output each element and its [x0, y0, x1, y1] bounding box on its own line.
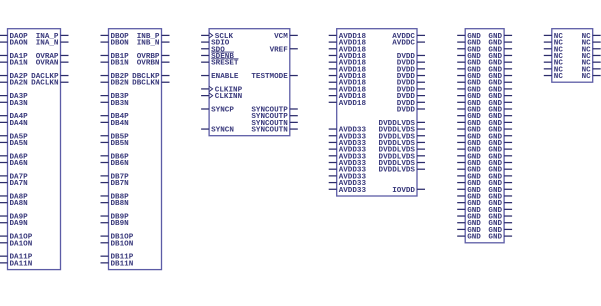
pin GND r21	[488, 173, 512, 181]
pin GND r24	[488, 193, 512, 201]
pin DA3P	[0, 93, 28, 101]
pin TESTMODE	[251, 73, 297, 81]
pin GND l5	[457, 66, 481, 74]
pin DVDDLVDS r20	[379, 167, 425, 175]
pin NC r4	[582, 60, 601, 68]
svg-text:DB9N: DB9N	[111, 220, 130, 228]
pin GND r4	[488, 60, 512, 68]
IC symbol U1A body	[8, 29, 61, 270]
pin NC l1	[544, 40, 564, 48]
pin GND l30	[457, 234, 481, 242]
pin GND l14	[457, 127, 481, 135]
pin GND r6	[488, 73, 512, 81]
pin DA7N	[0, 180, 28, 188]
pin AVDD18 r9	[329, 93, 367, 101]
pin NC r0	[582, 33, 601, 41]
pin DBCLKP	[132, 73, 169, 81]
pin DB3P	[101, 93, 130, 101]
pin DA0N	[0, 40, 28, 48]
svg-text:VCM: VCM	[274, 33, 288, 41]
pin DA2N	[0, 80, 28, 88]
pin DA4N	[0, 120, 28, 128]
svg-text:DB11N: DB11N	[111, 260, 134, 268]
svg-text:GND: GND	[488, 234, 502, 242]
pin DB4N	[101, 120, 130, 128]
pin DB7P	[101, 173, 130, 181]
pin GND l15	[457, 133, 481, 141]
pin NC r6	[582, 73, 601, 81]
svg-text:ENABLE: ENABLE	[211, 73, 239, 81]
pin GND r2	[488, 46, 512, 54]
pin DA0P	[0, 33, 28, 41]
pin GND l16	[457, 140, 481, 148]
pin DVDD r5	[397, 66, 425, 74]
pin NC r1	[582, 40, 601, 48]
svg-text:DB4N: DB4N	[111, 120, 130, 128]
svg-text:DAON: DAON	[10, 40, 29, 48]
svg-text:DA2N: DA2N	[10, 80, 29, 88]
pin DVDD r3	[397, 53, 425, 61]
pin SCLK	[201, 33, 233, 41]
pin GND l3	[457, 53, 481, 61]
pin GND r11	[488, 106, 512, 114]
pin DB0P	[101, 33, 130, 41]
svg-text:NC: NC	[582, 73, 592, 81]
pin SYNCN	[201, 127, 234, 135]
pin DB4P	[101, 113, 130, 121]
pin SYNCP	[201, 106, 234, 114]
pin CLKINP	[201, 86, 242, 94]
pin GND r12	[488, 113, 512, 121]
IC symbol U1B body	[109, 29, 162, 270]
pin GND r9	[488, 93, 512, 101]
pin DVDD r11	[397, 106, 425, 114]
pin DA9N	[0, 220, 28, 228]
pin GND r5	[488, 66, 512, 74]
pin AVDD18 r6	[329, 73, 367, 81]
pin GND r14	[488, 127, 512, 135]
pin ENABLE	[201, 73, 239, 81]
pin INA_N	[36, 40, 69, 48]
pin DA1P	[0, 53, 28, 61]
pin DA10P	[0, 234, 33, 242]
svg-text:AVDD33: AVDD33	[339, 187, 367, 195]
pin DB3N	[101, 100, 130, 108]
pin NC l6	[544, 73, 564, 81]
pin GND l2	[457, 46, 481, 54]
pin GND r17	[488, 147, 512, 155]
pin OVRBN	[137, 60, 170, 68]
svg-text:DB8N: DB8N	[111, 200, 130, 208]
pin GND r1	[488, 40, 512, 48]
pin DVDD r10	[397, 100, 425, 108]
pin SDENB	[201, 52, 234, 61]
pin NC l3	[544, 53, 564, 61]
pin GND r8	[488, 86, 512, 94]
pin NC r5	[582, 66, 601, 74]
pin AVDD33 r23	[329, 187, 367, 195]
svg-text:OVRAN: OVRAN	[36, 60, 59, 68]
pin DA1N	[0, 60, 28, 68]
pin GND l10	[457, 100, 481, 108]
svg-text:DA3N: DA3N	[10, 100, 29, 108]
pin NC l2	[544, 46, 564, 54]
pin AVDD33 r21	[329, 173, 367, 181]
svg-text:NC: NC	[554, 73, 564, 81]
pin DA6P	[0, 153, 28, 161]
svg-text:TESTMODE: TESTMODE	[251, 73, 288, 81]
pin GND r18	[488, 153, 512, 161]
pin DA9P	[0, 214, 28, 222]
pin SDO	[201, 46, 225, 54]
pin SDIO	[201, 40, 230, 48]
pin GND l22	[457, 180, 481, 188]
pin DA10N	[0, 240, 33, 248]
pin GND r15	[488, 133, 512, 141]
svg-text:INA_N: INA_N	[36, 40, 59, 48]
svg-text:DACLKN: DACLKN	[31, 80, 59, 88]
svg-text:SYNCN: SYNCN	[211, 127, 234, 135]
pin AVDD18 r0	[329, 33, 367, 41]
pin DVDDLVDS r15	[379, 133, 425, 141]
svg-text:DA6N: DA6N	[10, 160, 29, 168]
pin AVDD33 r14	[329, 127, 367, 135]
pin NC l0	[544, 33, 564, 41]
pin GND l4	[457, 60, 481, 68]
pin SYNCOUTN	[251, 120, 297, 128]
svg-text:AVDDC: AVDDC	[392, 40, 415, 48]
svg-text:DVDDLVDS: DVDDLVDS	[379, 167, 416, 175]
pin DB6P	[101, 153, 130, 161]
svg-text:SRESET: SRESET	[211, 60, 239, 68]
svg-text:DB3N: DB3N	[111, 100, 130, 108]
svg-text:DVDD: DVDD	[397, 106, 416, 114]
svg-text:DA1ON: DA1ON	[10, 240, 33, 248]
pin GND l17	[457, 147, 481, 155]
pin AVDD18 r8	[329, 86, 367, 94]
pin IOVDD	[392, 187, 425, 195]
svg-text:DBON: DBON	[111, 40, 130, 48]
pin GND l19	[457, 160, 481, 168]
pin DVDD r9	[397, 93, 425, 101]
pin DB1P	[101, 53, 130, 61]
pin AVDD18 r2	[329, 46, 367, 54]
pin GND r19	[488, 160, 512, 168]
svg-text:DA1N: DA1N	[10, 60, 29, 68]
pin DB9N	[101, 220, 130, 228]
pin GND r20	[488, 167, 512, 175]
pin GND r25	[488, 200, 512, 208]
pin NC l5	[544, 66, 564, 74]
svg-text:DA5N: DA5N	[10, 140, 29, 148]
pin DVDDLVDS r14	[379, 127, 425, 135]
pin GND l28	[457, 220, 481, 228]
IC symbol U1C body	[209, 29, 290, 136]
pin GND l29	[457, 227, 481, 235]
pin AVDD33 r18	[329, 153, 367, 161]
pin DA5N	[0, 140, 28, 148]
svg-text:DB2N: DB2N	[111, 80, 130, 88]
svg-text:GND: GND	[467, 234, 481, 242]
pin DA3N	[0, 100, 28, 108]
svg-text:VREF: VREF	[270, 46, 289, 54]
pin OVRBP	[137, 53, 170, 61]
svg-text:DA8N: DA8N	[10, 200, 29, 208]
pin DA8N	[0, 200, 28, 208]
pin AVDD33 r20	[329, 167, 367, 175]
pin DA7P	[0, 173, 28, 181]
svg-text:DA11N: DA11N	[10, 260, 33, 268]
pin NC l4	[544, 60, 564, 68]
pin DVDDLVDS r19	[379, 160, 425, 168]
svg-text:CLKINN: CLKINN	[215, 93, 243, 101]
pin DA11P	[0, 254, 33, 262]
pin DVDDLVDS r18	[379, 153, 425, 161]
pin DB6N	[101, 160, 130, 168]
pin INB_N	[137, 40, 170, 48]
pin DB9P	[101, 214, 130, 222]
pin DVDDLVDS r16	[379, 140, 425, 148]
pin DB10N	[101, 240, 134, 248]
pin GND l24	[457, 193, 481, 201]
pin DB11P	[101, 254, 134, 262]
pin NC r2	[582, 46, 601, 54]
svg-text:DA4N: DA4N	[10, 120, 29, 128]
svg-text:SYNCP: SYNCP	[211, 106, 234, 114]
pin GND r13	[488, 120, 512, 128]
IC symbol U1E body	[465, 29, 504, 243]
svg-text:IOVDD: IOVDD	[392, 187, 415, 195]
pin SYNCOUTP	[251, 113, 297, 121]
pin GND l27	[457, 214, 481, 222]
pin OVRAN	[36, 60, 69, 68]
pin DA4P	[0, 113, 28, 121]
pin GND l8	[457, 86, 481, 94]
pin GND r29	[488, 227, 512, 235]
pin DB8N	[101, 200, 130, 208]
pin AVDD18 r7	[329, 80, 367, 88]
pin GND l7	[457, 80, 481, 88]
pin GND r26	[488, 207, 512, 215]
pin GND l11	[457, 106, 481, 114]
IC symbol U1F body	[552, 29, 593, 82]
pin DVDD r8	[397, 86, 425, 94]
pin DB8P	[101, 193, 130, 201]
pin DB2N	[101, 80, 130, 88]
svg-text:DB7N: DB7N	[111, 180, 130, 188]
pin DA8P	[0, 193, 28, 201]
pin AVDD18 r10	[329, 100, 367, 108]
pin AVDD33 r15	[329, 133, 367, 141]
pin DVDDLVDS r17	[379, 147, 425, 155]
pin GND r10	[488, 100, 512, 108]
pin GND l20	[457, 167, 481, 175]
pin VCM	[274, 33, 298, 41]
pin AVDDC r1	[392, 40, 425, 48]
pin GND r30	[488, 234, 512, 242]
svg-text:DBCLKN: DBCLKN	[132, 80, 160, 88]
IC symbol U1D body	[337, 29, 417, 196]
pin AVDD33 r22	[329, 180, 367, 188]
pin GND r23	[488, 187, 512, 195]
pin DB1N	[101, 60, 130, 68]
svg-text:DA9N: DA9N	[10, 220, 29, 228]
svg-text:AVDD18: AVDD18	[339, 100, 367, 108]
pin GND r27	[488, 214, 512, 222]
pin GND l9	[457, 93, 481, 101]
pin DACLKP	[31, 73, 68, 81]
pin GND l25	[457, 200, 481, 208]
pin DA11N	[0, 260, 33, 268]
pin DBCLKN	[132, 80, 169, 88]
pin DB0N	[101, 40, 130, 48]
pin AVDD33 r17	[329, 147, 367, 155]
pin GND l23	[457, 187, 481, 195]
pin GND r3	[488, 53, 512, 61]
pin GND r22	[488, 180, 512, 188]
pin DB10P	[101, 234, 134, 242]
pin GND l21	[457, 173, 481, 181]
pin DB5P	[101, 133, 130, 141]
pin DA6N	[0, 160, 28, 168]
pin GND l12	[457, 113, 481, 121]
pin SYNCOUTN	[251, 127, 297, 135]
pin AVDD33 r16	[329, 140, 367, 148]
svg-text:OVRBN: OVRBN	[137, 60, 160, 68]
pin GND r28	[488, 220, 512, 228]
svg-text:INB_N: INB_N	[137, 40, 160, 48]
pin GND r16	[488, 140, 512, 148]
pin AVDD33 r19	[329, 160, 367, 168]
svg-text:DB1N: DB1N	[111, 60, 130, 68]
pin INA_P	[36, 33, 69, 41]
pin DB7N	[101, 180, 130, 188]
pin VREF	[270, 46, 298, 54]
pin DB2P	[101, 73, 130, 81]
pin DA2P	[0, 73, 28, 81]
pin GND r7	[488, 80, 512, 88]
svg-text:DB6N: DB6N	[111, 160, 130, 168]
pin GND l18	[457, 153, 481, 161]
pin GND l0	[457, 33, 481, 41]
pin DVDD r4	[397, 60, 425, 68]
pin AVDD18 r1	[329, 40, 367, 48]
pin GND l13	[457, 120, 481, 128]
pin CLKINN	[201, 93, 242, 101]
pin SRESET	[201, 59, 239, 68]
pin DB5N	[101, 140, 130, 148]
pin DB11N	[101, 260, 134, 268]
svg-text:DA7N: DA7N	[10, 180, 29, 188]
pin GND l6	[457, 73, 481, 81]
svg-text:DB5N: DB5N	[111, 140, 130, 148]
pin AVDD18 r4	[329, 60, 367, 68]
pin SYNCOUTP	[251, 106, 297, 114]
pin INB_P	[137, 33, 170, 41]
pin DVDD r7	[397, 80, 425, 88]
svg-text:SYNCOUTN: SYNCOUTN	[251, 127, 288, 135]
pin OVRAP	[36, 53, 69, 61]
pin DVDD r6	[397, 73, 425, 81]
pin GND l1	[457, 40, 481, 48]
pin DACLKN	[31, 80, 68, 88]
pin AVDDC r0	[392, 33, 425, 41]
pin DA5P	[0, 133, 28, 141]
pin AVDD18 r3	[329, 53, 367, 61]
pin NC r3	[582, 53, 601, 61]
pin DVDDLVDS r13	[379, 120, 425, 128]
pin GND r0	[488, 33, 512, 41]
svg-text:DB1ON: DB1ON	[111, 240, 134, 248]
pin AVDD18 r5	[329, 66, 367, 74]
pin GND l26	[457, 207, 481, 215]
